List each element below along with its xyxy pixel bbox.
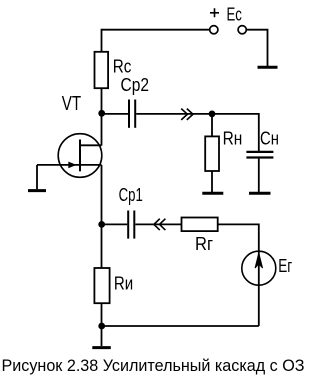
wire from Rи bottom to bottom rail node	[101, 303, 103, 326]
node bottom rail junction dot	[98, 323, 105, 330]
source Ег body circle	[242, 251, 276, 285]
wire from Rc bottom to drain of VT	[101, 88, 103, 145]
svg-text:Rг: Rг	[195, 234, 213, 254]
transistor VT gate and source lead	[37, 164, 102, 166]
resistor Rc	[95, 52, 109, 88]
label Ec (supply voltage)	[227, 5, 242, 25]
label Cp1	[119, 185, 143, 205]
node output junction dot	[209, 111, 216, 118]
ground (supply)	[258, 66, 278, 69]
label Сн	[260, 129, 279, 149]
signal direction chevrons on output wire	[181, 109, 193, 120]
label + (plus sign of supply)	[210, 8, 219, 17]
transistor VT gate arrow	[68, 162, 76, 169]
svg-text:Ec: Ec	[227, 5, 242, 25]
wire from output node down to Rн	[211, 114, 213, 136]
terminal circle left of + Ec	[210, 26, 218, 34]
ground (gate)	[28, 189, 46, 192]
capacitor Cp2	[129, 100, 135, 128]
terminal circle right of + Ec	[238, 26, 246, 34]
svg-text:Rн: Rн	[223, 129, 243, 149]
svg-text:Rи: Rи	[114, 274, 133, 294]
wire bottom rail	[102, 325, 259, 327]
wire source of VT down to input node	[101, 165, 103, 268]
label Rи	[114, 274, 133, 294]
transistor VT body circle	[58, 134, 102, 178]
svg-text:Cp1: Cp1	[119, 185, 143, 205]
transistor VT channel bar	[79, 140, 81, 172]
label VT	[62, 93, 81, 115]
wire from Rн bottom to ground	[211, 171, 213, 192]
ground (Rн)	[202, 192, 223, 195]
capacitor Cp1	[128, 211, 134, 239]
ground (Cн)	[249, 192, 271, 195]
wire from gate down to ground	[36, 165, 38, 189]
svg-text:Ег: Ег	[278, 256, 292, 276]
wire from Cp1 right plate to Rг	[135, 223, 181, 225]
wire from Cp2 right plate to output node	[136, 113, 212, 115]
svg-text:Cp2: Cp2	[121, 75, 150, 95]
node drain junction dot	[98, 110, 105, 117]
wire from Cн bottom plate to ground	[258, 159, 260, 192]
wire from input node to Cp1 left plate	[102, 223, 128, 225]
wire from drain node to Cp2 left plate	[102, 113, 129, 115]
resistor Rн	[205, 136, 219, 171]
transistor VT drain lead	[80, 144, 102, 146]
label Rc	[113, 57, 132, 77]
node input junction dot	[98, 221, 105, 228]
caption figure title	[2, 357, 305, 375]
wire top rail from Rc top to + terminal	[102, 29, 210, 31]
resistor Rг	[182, 218, 218, 232]
label Rн	[223, 129, 243, 149]
signal direction chevrons on input wire	[154, 219, 166, 230]
wire from right terminal to supply ground	[246, 30, 267, 66]
svg-text:VT: VT	[62, 93, 81, 115]
svg-text:Rc: Rc	[113, 57, 132, 77]
wire from Rг to Ег branch corner	[218, 224, 259, 251]
wire through Ег down to bottom rail	[258, 251, 260, 326]
label Cp2	[121, 75, 150, 95]
svg-text:Рисунок 2.38 Усилительный каск: Рисунок 2.38 Усилительный каскад с ОЗ	[2, 357, 305, 375]
label Ег	[278, 256, 292, 276]
label Rг	[195, 234, 213, 254]
wire from bottom node down to ground	[101, 326, 103, 346]
svg-text:Сн: Сн	[260, 129, 279, 149]
resistor Rи	[94, 268, 109, 303]
source Ег arrow	[255, 253, 263, 268]
wire from top rail down to Rc	[101, 29, 103, 52]
wire from output node to Cн branch	[212, 114, 259, 151]
capacitor Cн	[246, 152, 273, 158]
ground (bottom rail)	[92, 346, 111, 349]
